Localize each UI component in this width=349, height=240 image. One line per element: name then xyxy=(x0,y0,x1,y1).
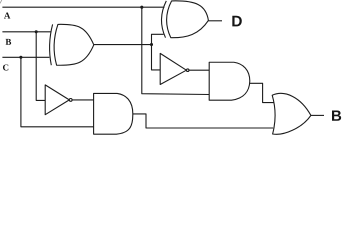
wire input B xyxy=(2,31,50,33)
wire node to XOR G2 lower input xyxy=(152,34,164,44)
node on G1 output xyxy=(150,43,153,46)
wire C to AND2 lower input xyxy=(21,57,94,127)
and gate G5 xyxy=(209,62,250,100)
wire input A xyxy=(2,6,164,8)
label C xyxy=(3,64,8,70)
wire G7 output B xyxy=(311,114,324,116)
corner artifact xyxy=(0,0,2,3)
wire G3 output to AND1 xyxy=(189,69,209,71)
wire B to inverter G4 input xyxy=(36,32,45,101)
node on C xyxy=(19,56,22,59)
wire G2 output D xyxy=(208,20,222,22)
wire G5 output to OR xyxy=(250,83,274,102)
label A xyxy=(4,13,10,19)
wire G6 output to OR lower input xyxy=(133,114,274,128)
label D xyxy=(232,16,241,27)
xor gate G2 (output D) xyxy=(161,1,166,38)
and gate G6 xyxy=(94,93,133,134)
wire G4 output to AND2 xyxy=(72,99,94,101)
xor gate G1 xyxy=(50,24,53,65)
wire A to AND1 lower input xyxy=(142,7,209,94)
or gate G7 (output B) xyxy=(272,93,311,134)
wire G1 output xyxy=(94,44,152,46)
label B xyxy=(6,39,12,45)
wire node to inverter G3 input xyxy=(152,45,161,70)
bubble G3 xyxy=(186,69,189,72)
node on A xyxy=(140,6,143,9)
label B output xyxy=(332,110,341,120)
node on B xyxy=(35,30,38,33)
wire input C xyxy=(2,56,49,58)
inverter G4 xyxy=(45,85,69,115)
bubble G4 xyxy=(69,99,72,102)
inverter G3 xyxy=(160,53,186,84)
